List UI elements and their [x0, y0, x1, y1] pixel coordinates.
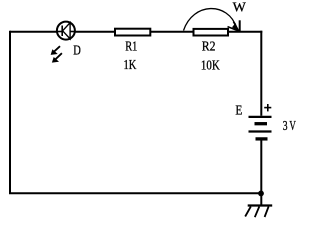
svg-text:10K: 10K	[201, 58, 220, 73]
svg-text:W: W	[233, 0, 246, 15]
svg-text:R1: R1	[125, 38, 137, 53]
svg-text:R2: R2	[202, 38, 216, 53]
svg-text:3: 3	[283, 118, 288, 133]
svg-text:D: D	[73, 42, 81, 57]
svg-text:E: E	[235, 103, 242, 118]
svg-text:V: V	[289, 118, 296, 133]
svg-text:1K: 1K	[124, 57, 137, 72]
